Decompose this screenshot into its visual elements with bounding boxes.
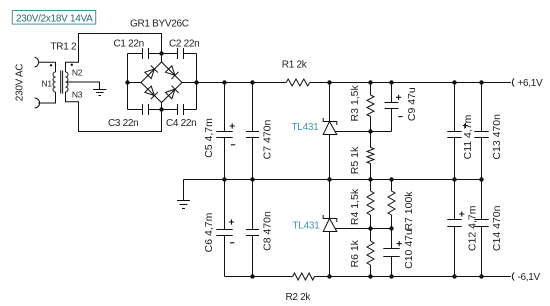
svg-text:N3: N3: [72, 90, 83, 100]
node top rail C9: [389, 80, 393, 84]
svg-text:C9 47u: C9 47u: [406, 87, 418, 121]
wire primary top: [38, 62, 55, 72]
node top rail TL431: [327, 80, 331, 84]
svg-text:C1 22n: C1 22n: [114, 39, 144, 50]
ground center tap: [93, 90, 107, 96]
svg-text:C8 470n: C8 470n: [261, 211, 273, 251]
svg-text:C11 4,7m: C11 4,7m: [462, 114, 474, 159]
transformer secondary winding N2: [66, 72, 69, 82]
capacitor C5 4,7m: [216, 83, 235, 180]
wire N3 bottom to bridge bottom: [66, 92, 162, 132]
label 230V AC: [14, 64, 25, 101]
label R6 1k: [349, 239, 361, 267]
transformer TR1 primary winding N1: [53, 72, 56, 92]
ground middle rail: [177, 180, 190, 209]
svg-text:R7 100k: R7 100k: [403, 191, 415, 231]
label C10 47u: [403, 229, 415, 269]
capacitor C10 47u: [383, 229, 402, 277]
node bridge bottom: [159, 107, 163, 111]
connector primary top: [35, 57, 39, 67]
label C1 22n: [114, 39, 144, 50]
resistor R4 1,5k: [367, 180, 374, 229]
svg-text:C12 4,7m: C12 4,7m: [466, 205, 478, 251]
resistor R7 100k: [388, 180, 395, 229]
label C8 470n: [261, 211, 273, 251]
label C12 4,7m: [466, 205, 478, 251]
node top rail C11: [452, 80, 456, 84]
capacitor C13 470n: [474, 83, 488, 180]
label C7 470n: [261, 119, 273, 159]
wire primary bottom: [38, 92, 55, 103]
label R1 2k: [282, 60, 308, 71]
node top rail C13: [479, 80, 483, 84]
wire top rail left: [197, 82, 287, 84]
label R5 1k: [349, 146, 361, 174]
node bottom rail R6: [368, 274, 372, 278]
svg-text:C14 470n: C14 470n: [491, 205, 503, 251]
label R4 1,5k: [349, 188, 361, 225]
diode D4 bridge bottom-right: [165, 86, 178, 99]
wire bridge square left: [127, 54, 129, 110]
wire center tap: [66, 82, 100, 90]
wire bottom rail left: [225, 276, 293, 278]
capacitor C11 4,7m: [447, 83, 468, 180]
connector primary bottom: [35, 98, 40, 108]
capacitor C4: [178, 104, 184, 115]
resistor R6 1k: [367, 229, 374, 277]
svg-text:C2 22n: C2 22n: [169, 39, 199, 50]
svg-text:R6 1k: R6 1k: [349, 239, 361, 267]
node bridge right: [194, 80, 198, 84]
node mid rail C7: [250, 177, 254, 181]
svg-text:R5 1k: R5 1k: [349, 146, 361, 174]
label C4 22n: [166, 118, 196, 129]
node top rail C5: [222, 80, 226, 84]
label TL431 upper: [292, 122, 320, 133]
svg-text:R3 1,5k: R3 1,5k: [349, 85, 361, 122]
terminal +6,1V: [512, 78, 543, 89]
svg-text:C7 470n: C7 470n: [261, 119, 273, 159]
svg-text:230V/2x18V 14VA: 230V/2x18V 14VA: [16, 13, 93, 24]
node bridge left: [125, 80, 129, 84]
label R7 100k: [403, 191, 415, 231]
wire N2 top to bridge top: [66, 34, 162, 73]
wire middle rail: [184, 179, 482, 181]
label C2 22n: [169, 39, 199, 50]
polarity dot N1: [50, 64, 52, 66]
capacitor C12 4,7m: [447, 180, 464, 277]
svg-text:TR1 2: TR1 2: [51, 42, 77, 53]
svg-text:C5 4,7m: C5 4,7m: [203, 118, 215, 158]
label N2: [72, 67, 83, 77]
capacitor C7 470n: [246, 83, 259, 180]
resistor R2 2k: [293, 273, 315, 280]
svg-text:C10 47u: C10 47u: [403, 229, 415, 269]
wire bridge bottom side: [128, 109, 197, 111]
resistor R3 1,5k: [367, 83, 374, 132]
svg-text:N2: N2: [72, 67, 83, 77]
node bottom rail TL431: [327, 274, 331, 278]
diode D3 bridge bottom-left: [144, 86, 157, 99]
node mid rail C13: [479, 177, 483, 181]
label R3 1,5k: [349, 85, 361, 122]
terminal -6,1V: [512, 272, 540, 283]
svg-text:R1 2k: R1 2k: [282, 60, 308, 71]
label TL431 lower: [293, 220, 321, 231]
svg-text:C6 4,7m: C6 4,7m: [203, 212, 215, 252]
node bridge top: [159, 51, 163, 55]
capacitor C2: [178, 48, 184, 59]
shunt regulator U1 TL431 upper: [323, 83, 391, 180]
svg-text:C4 22n: C4 22n: [166, 118, 196, 129]
node bottom rail C12: [452, 274, 456, 278]
capacitor C14 470n: [474, 180, 488, 277]
diode D2 bridge top-right: [165, 65, 178, 78]
label box 230V/2x18V 14VA: [12, 11, 95, 25]
svg-text:TL431: TL431: [292, 122, 320, 133]
node mid rail R7: [389, 177, 393, 181]
svg-text:+6,1V: +6,1V: [518, 78, 544, 89]
label C5 4,7m: [203, 118, 215, 158]
wire bridge square right: [196, 54, 198, 110]
svg-text:C13 470n: C13 470n: [491, 114, 503, 160]
svg-text:R2 2k: R2 2k: [286, 292, 312, 303]
label C9 47u: [406, 87, 418, 121]
diode D1 bridge top-left: [144, 65, 157, 78]
wire bridge top side: [128, 53, 197, 55]
svg-text:N1: N1: [42, 78, 53, 88]
shunt regulator U2 TL431 lower: [323, 180, 391, 277]
capacitor C1: [143, 48, 149, 59]
node ref2 R4-R6: [368, 226, 372, 230]
wire top rail right: [310, 82, 511, 84]
capacitor C8 470n: [246, 180, 259, 277]
label N1: [42, 78, 53, 88]
label N3: [72, 90, 83, 100]
svg-text:230V AC: 230V AC: [14, 64, 25, 101]
svg-text:TL431: TL431: [293, 220, 321, 231]
wire bridge diamond: [128, 54, 197, 110]
node bottom rail C14: [479, 274, 483, 278]
capacitor C9 47u: [385, 83, 403, 132]
svg-text:-6,1V: -6,1V: [518, 272, 541, 283]
node bottom rail C10: [389, 274, 393, 278]
label C14 470n: [491, 205, 503, 251]
node top rail C7: [250, 80, 254, 84]
label C6 4,7m: [203, 212, 215, 252]
wire bottom rail right: [315, 276, 512, 278]
resistor R5 1k: [367, 132, 374, 180]
polarity dot N2: [71, 64, 73, 66]
resistor R1: [286, 79, 310, 86]
capacitor C3: [143, 104, 149, 115]
label GR1 BYV26C: [130, 19, 189, 30]
label C3 22n: [108, 118, 138, 129]
label C13 470n: [491, 114, 503, 160]
svg-text:R4 1,5k: R4 1,5k: [349, 188, 361, 225]
capacitor C6 4,7m: [216, 180, 234, 277]
label C11 4,7m: [462, 114, 474, 159]
node mid rail R5-R4: [368, 177, 372, 181]
transformer core: [61, 71, 63, 94]
node ref2 R7-C10: [389, 226, 393, 230]
node ref1 R3-R5: [368, 129, 372, 133]
transformer secondary winding N3: [66, 82, 69, 92]
node mid rail C11: [452, 177, 456, 181]
label R2 2k: [286, 292, 312, 303]
label TR1 2: [51, 42, 77, 53]
svg-text:GR1 BYV26C: GR1 BYV26C: [130, 19, 189, 30]
svg-text:C3 22n: C3 22n: [108, 118, 138, 129]
node top rail R3: [368, 80, 372, 84]
node bottom rail C8: [250, 274, 254, 278]
node mid rail TL431: [327, 177, 331, 181]
node mid rail C5: [222, 177, 226, 181]
